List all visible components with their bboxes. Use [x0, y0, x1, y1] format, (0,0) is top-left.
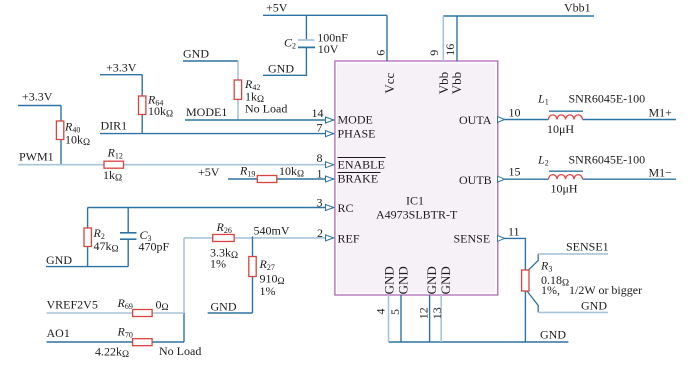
svg-text:1%, 1/2W or bigger: 1%, 1/2W or bigger [541, 283, 642, 297]
wire pin 13 vertical (highlighted) [440, 295, 442, 342]
wire SENSE1 net stub (highlighted) [538, 253, 608, 255]
wire C2 bottom [263, 47, 306, 75]
svg-text:SENSE1: SENSE1 [566, 240, 609, 254]
svg-text:7: 7 [317, 121, 323, 135]
wire SENSE pin 11 [498, 238, 526, 342]
svg-text:10V: 10V [318, 42, 339, 56]
wire pin 5 vertical [400, 295, 402, 342]
wire pin 12 vertical [429, 295, 431, 342]
svg-text:+3.3V: +3.3V [22, 89, 53, 103]
capacitor C3 plates [120, 232, 137, 234]
resistor R3 [522, 270, 529, 291]
wire GND horizontal [183, 60, 238, 62]
svg-text:47kΩ: 47kΩ [94, 239, 119, 255]
svg-text:R26: R26 [216, 220, 232, 235]
svg-text:1%: 1% [210, 257, 226, 271]
wire C3 top [127, 208, 129, 233]
wire GND lead-out diagonal (R3) [525, 289, 538, 312]
wire VREF2V5 (highlighted) [47, 312, 185, 314]
pin arrow 2 [326, 235, 334, 241]
svg-text:R70: R70 [117, 324, 133, 339]
wire SENSE1 lead-in diagonal [525, 254, 538, 273]
wire pin 4 vertical (highlighted) [388, 295, 390, 342]
wire +5V to R19 to pin 1 [228, 178, 334, 180]
svg-text:SENSE: SENSE [454, 232, 491, 246]
resistor R27 [249, 257, 256, 277]
svg-text:470pF: 470pF [139, 240, 170, 254]
svg-text:MODE: MODE [338, 113, 373, 127]
inductor L1 coil [549, 115, 583, 120]
svg-text:No Load: No Load [245, 102, 287, 116]
svg-text:1: 1 [317, 166, 323, 180]
svg-text:11: 11 [508, 225, 520, 239]
svg-text:8: 8 [317, 151, 323, 165]
svg-text:1%: 1% [260, 284, 276, 298]
pin arrow 1 [326, 176, 334, 182]
wire R64 vertical [141, 75, 143, 134]
wire RC line to pin 3 [88, 207, 334, 209]
wire AO1 [47, 341, 185, 343]
svg-text:OUTA: OUTA [459, 113, 492, 127]
wire pin 9 vertical (highlighted) [442, 16, 444, 61]
inductor L2 coil [549, 175, 583, 180]
wire REF line (highlighted) [184, 237, 334, 239]
svg-text:C2: C2 [284, 35, 296, 50]
pin arrow 3 [326, 205, 334, 211]
wire junction vertical lower [183, 313, 185, 342]
svg-text:GND: GND [382, 266, 397, 294]
svg-text:DIR1: DIR1 [101, 119, 128, 133]
svg-text:R19: R19 [239, 164, 255, 179]
svg-text:PHASE: PHASE [338, 127, 376, 141]
wire C3 bottom [127, 239, 129, 266]
svg-text:10kΩ: 10kΩ [279, 164, 304, 180]
svg-text:+5V: +5V [266, 1, 288, 15]
svg-text:GND: GND [540, 327, 566, 341]
svg-text:M1+: M1+ [649, 105, 673, 119]
svg-text:1kΩ: 1kΩ [103, 168, 122, 184]
svg-text:VREF2V5: VREF2V5 [47, 298, 98, 312]
wire OUTA to M1+ [498, 119, 677, 121]
svg-text:L2: L2 [537, 153, 549, 168]
wire +5V horizontal to pin 6 [263, 14, 387, 16]
wire Vbb1 horizontal [443, 15, 594, 17]
svg-text:6: 6 [374, 50, 388, 56]
svg-text:Vcc: Vcc [382, 72, 397, 93]
svg-text:GND: GND [438, 266, 453, 294]
svg-text:L1: L1 [537, 92, 549, 107]
svg-text:MODE1: MODE1 [186, 105, 227, 119]
wire GND horizontal (R27) [208, 312, 253, 314]
inductor L1 bar [549, 110, 583, 112]
svg-text:540mV: 540mV [254, 224, 290, 238]
svg-text:R12: R12 [107, 146, 123, 161]
wire R40 vertical [60, 106, 62, 165]
svg-text:GND: GND [396, 266, 411, 294]
svg-text:12: 12 [416, 307, 430, 319]
svg-text:GND: GND [211, 300, 237, 314]
svg-text:GND: GND [46, 253, 72, 267]
svg-text:OUTB: OUTB [459, 173, 492, 187]
svg-text:IC1: IC1 [406, 194, 424, 208]
resistor R70 [133, 339, 153, 346]
svg-text:10kΩ: 10kΩ [65, 133, 90, 149]
resistor R26 [213, 235, 235, 242]
svg-text:15: 15 [509, 165, 521, 179]
wire +3.3V horizontal [100, 74, 142, 76]
svg-text:No Load: No Load [159, 344, 201, 358]
svg-text:5: 5 [388, 309, 402, 315]
svg-text:10μH: 10μH [551, 182, 578, 196]
svg-text:RC: RC [338, 201, 354, 215]
wire GND horizontal (R2 C3) [46, 266, 128, 268]
wire pin 16 vertical [456, 16, 458, 61]
wire R2 vertical [87, 208, 89, 267]
svg-text:BRAKE: BRAKE [338, 172, 379, 186]
svg-text:4: 4 [374, 309, 388, 315]
svg-text:3: 3 [317, 196, 323, 210]
svg-text:REF: REF [338, 232, 360, 246]
pin arrow 14 [326, 117, 334, 123]
wire PWM1 to pin 8 (highlighted) [18, 164, 334, 166]
svg-text:9: 9 [427, 50, 441, 56]
IC U1 body A4973SLBTR-T [337, 64, 496, 293]
svg-text:+3.3V: +3.3V [106, 61, 137, 75]
resistor R64 [139, 96, 146, 115]
capacitor C2 top plate (highlighted) [298, 39, 315, 41]
wire pin 6 vertical [386, 15, 388, 61]
wire R42 vertical (highlighted) [237, 61, 239, 120]
svg-text:PWM1: PWM1 [19, 150, 54, 164]
svg-text:10kΩ: 10kΩ [148, 104, 173, 120]
svg-text:GND: GND [424, 266, 439, 294]
pin arrow 11 [498, 235, 505, 241]
overline for ENABLE [338, 157, 386, 159]
resistor R2 [84, 228, 91, 247]
inductor L2 bar [549, 170, 583, 172]
svg-text:Vbb: Vbb [449, 72, 464, 94]
wire GND net stub (highlighted) [538, 311, 608, 313]
resistor R42 [234, 80, 241, 99]
svg-text:GND: GND [268, 61, 294, 75]
svg-text:+5V: +5V [198, 165, 220, 179]
svg-text:Vbb1: Vbb1 [564, 1, 591, 15]
wire GND bus at bottom [389, 341, 569, 343]
svg-text:ENABLE: ENABLE [338, 157, 385, 171]
wire R27 vertical [252, 237, 254, 314]
svg-text:R3: R3 [540, 259, 552, 274]
wire DIR1 to pin 7 [100, 133, 334, 135]
svg-text:10μH: 10μH [547, 122, 574, 136]
svg-text:4.22kΩ: 4.22kΩ [95, 345, 129, 361]
pin arrow 8 [326, 162, 334, 168]
svg-text:GND: GND [581, 299, 607, 313]
svg-text:13: 13 [430, 307, 444, 319]
svg-text:2: 2 [317, 226, 323, 240]
wire REF junction vertical (highlighted) [183, 238, 185, 313]
svg-text:14: 14 [312, 106, 324, 120]
svg-text:0Ω: 0Ω [156, 298, 169, 314]
resistor R19 [257, 176, 277, 183]
wire MODE1 to pin 14 [185, 119, 334, 121]
svg-text:R27: R27 [259, 257, 275, 272]
capacitor C2 bottom plate [298, 46, 315, 48]
overline for BRAKE [338, 172, 381, 174]
svg-text:M1−: M1− [649, 165, 673, 179]
svg-text:10: 10 [509, 106, 521, 120]
wire OUTB to M1- [498, 178, 677, 180]
wire C2 top [305, 15, 307, 40]
pin arrow 10 [498, 117, 505, 123]
pin arrow 15 [498, 176, 505, 182]
svg-text:AO1: AO1 [47, 326, 70, 340]
svg-text:SNR6045E-100: SNR6045E-100 [569, 153, 646, 167]
svg-text:GND: GND [183, 47, 209, 61]
svg-text:16: 16 [443, 44, 457, 56]
resistor R69 [133, 310, 153, 317]
resistor R12 [104, 161, 124, 168]
wire +3.3V horizontal [18, 105, 61, 107]
resistor R40 [56, 121, 63, 140]
svg-text:SNR6045E-100: SNR6045E-100 [569, 92, 646, 106]
svg-text:R69: R69 [117, 296, 133, 311]
pin arrow 7 [326, 131, 334, 137]
svg-text:A4973SLBTR-T: A4973SLBTR-T [376, 208, 458, 222]
